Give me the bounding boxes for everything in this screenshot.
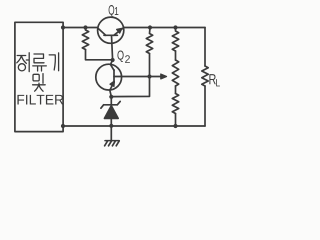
transistor Q2 [96, 64, 122, 90]
node C (Q2 base / R2 / wiper) [147, 74, 151, 78]
label FILTER [17, 95, 63, 105]
label hangul ryu [33, 54, 47, 71]
label Q1 [109, 5, 119, 17]
zener diode D1 [110, 97, 112, 105]
wire node C to node B [111, 77, 149, 97]
label RL [209, 74, 220, 86]
wire Q2 emitter to zener node [110, 90, 112, 96]
wire right rail upper [204, 28, 206, 67]
transistor Q1 [98, 17, 124, 43]
resistor R3 [172, 28, 178, 52]
wire Q2 base [122, 76, 150, 78]
wire VR-R4 [175, 86, 177, 94]
potentiometer VR1 [172, 60, 178, 86]
potentiometer wiper arrow [150, 76, 163, 78]
node divider top [173, 25, 177, 29]
node zener-anode on bottom rail [109, 124, 113, 128]
wire R2 to node C [149, 54, 151, 77]
label hangul gi [49, 53, 58, 71]
wire R1 bottom to node A [86, 50, 113, 60]
resistor RL [202, 66, 208, 86]
node chain1 top [148, 25, 152, 29]
rectifier/filter box [15, 22, 63, 131]
resistor R4 [172, 94, 178, 114]
node B (zener / Q2 emitter / divider return) [109, 95, 113, 99]
resistor R2 [146, 28, 152, 54]
wire right rail lower [204, 86, 206, 126]
wire top rail left [63, 27, 98, 29]
node divider bottom [173, 124, 177, 128]
label hangul mit [33, 74, 39, 81]
label Q2 [117, 51, 129, 63]
wire bottom rail [63, 125, 205, 127]
wire top rail right [124, 27, 205, 29]
node A (Q1 base / Q2 collector / R1) [111, 58, 115, 62]
node bottom rail at box [61, 124, 65, 128]
node R1 top [83, 25, 87, 29]
wire R3-VR [175, 51, 177, 60]
resistor R1 [82, 28, 88, 50]
node top rail at box [61, 25, 65, 29]
wire Q1 base to node A [112, 35, 113, 60]
wire R4 to bottom rail [175, 114, 177, 127]
label hangul jeong [17, 56, 27, 64]
ground [110, 126, 112, 141]
